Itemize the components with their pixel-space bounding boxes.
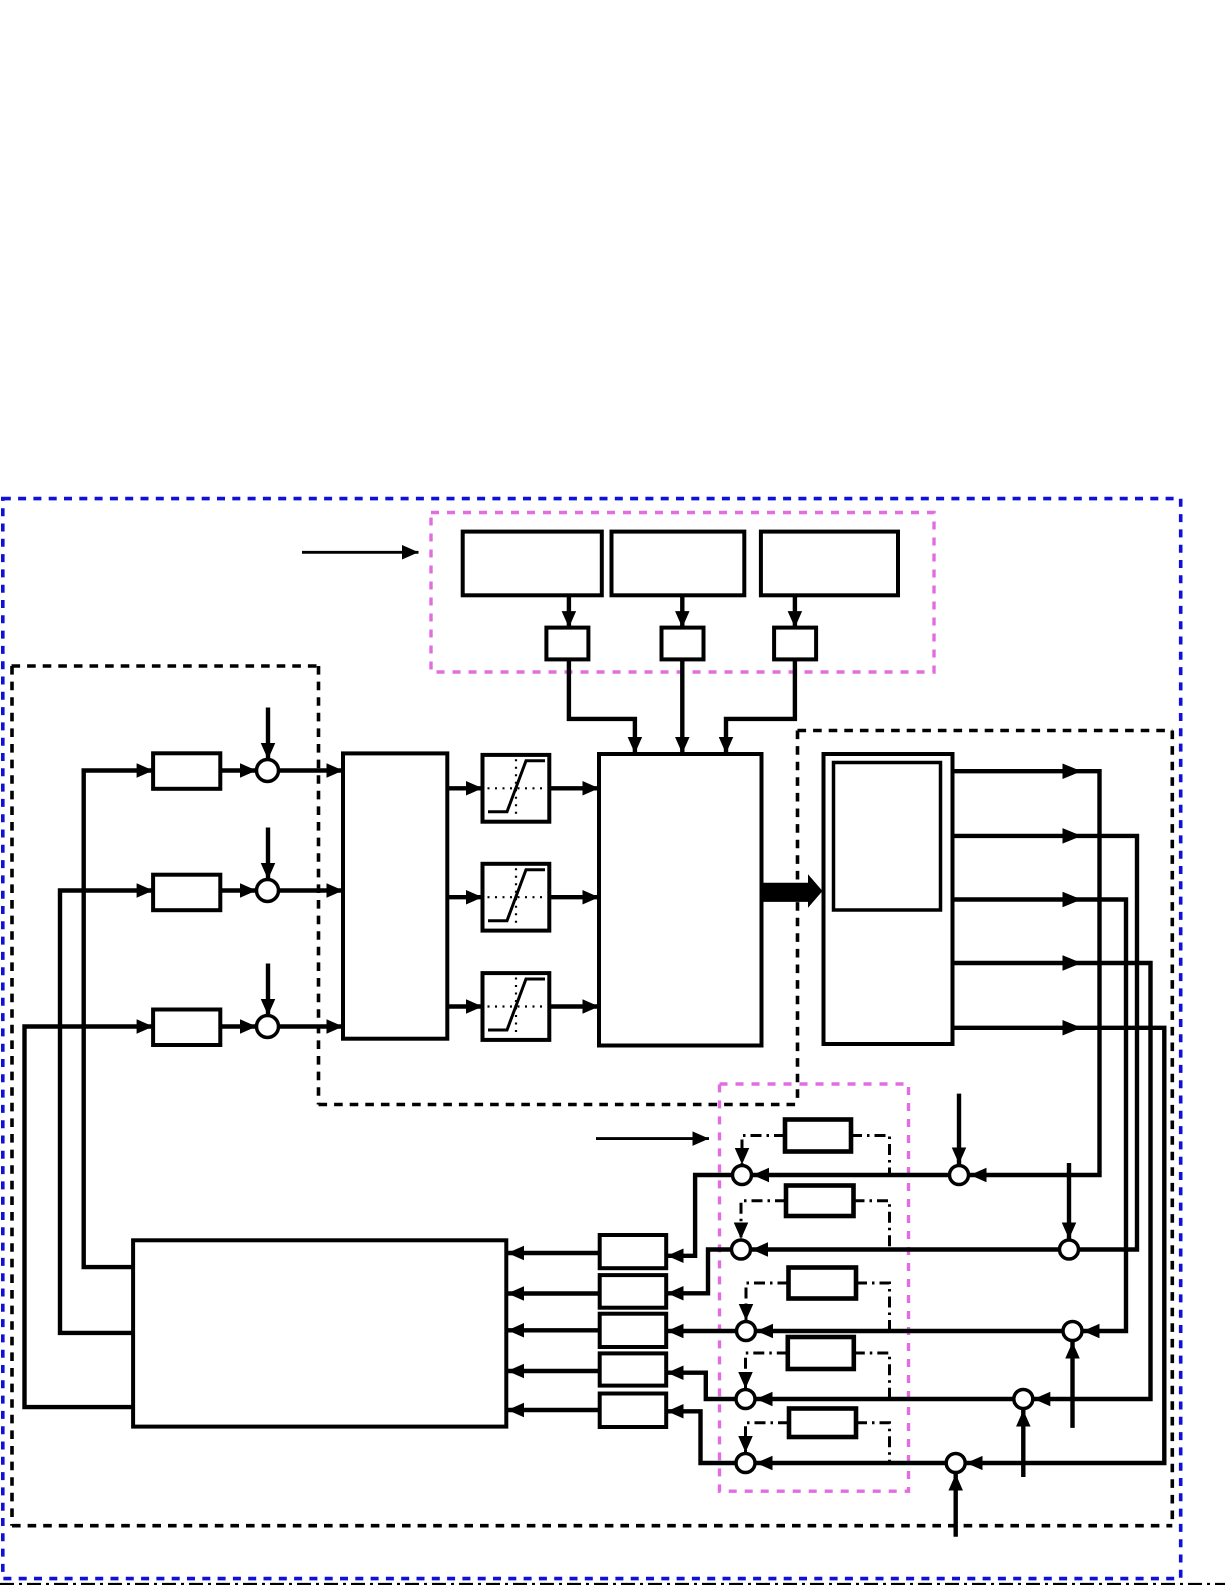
- filter block F2: [786, 1186, 854, 1217]
- external input arrow into junction J1 (top): [957, 1094, 961, 1164]
- dash-dot wire tap into filter F2 input: [854, 1201, 890, 1250]
- plant output wire y3 down to feedback junction row 3: [953, 900, 1127, 1332]
- arrow parameter P2 to gain block G2: [680, 595, 684, 627]
- controller block C: [599, 754, 762, 1046]
- wire summing junction S1 to mixer: [279, 768, 344, 772]
- wire mixer to saturation block SAT2: [447, 895, 482, 899]
- filter block F1: [785, 1120, 851, 1152]
- reference input arrow into summing junction S2: [266, 828, 270, 880]
- saturation icon curve SAT2: [488, 870, 545, 921]
- filter summing junction K5: [736, 1454, 755, 1473]
- direction arrowhead on output wire y1: [1063, 763, 1082, 779]
- summing junction J2: [1060, 1240, 1079, 1259]
- dashed boundary segment: top edge of right dashed box: [798, 729, 1173, 733]
- wire junction J2 to filter junction K2: [752, 1247, 1060, 1251]
- wire mixer to saturation block SAT1: [447, 786, 482, 790]
- wire junction J1 to filter junction K1: [753, 1173, 950, 1177]
- summing junction J4: [1014, 1390, 1033, 1409]
- wire SAT1 to controller: [549, 786, 599, 790]
- filter block F5: [789, 1409, 856, 1438]
- wire junction K4 to delay block Z4: [667, 1373, 735, 1399]
- wire gain G3 to controller top: [726, 659, 795, 753]
- delay block Z3: [600, 1314, 667, 1347]
- dash-dot wire filter F2 output into junction K2: [741, 1201, 786, 1239]
- dash-dot wire filter F4 output into junction K4: [746, 1353, 788, 1389]
- wire junction K3 to delay block Z3: [667, 1329, 736, 1333]
- reference input arrow into summing junction S1: [266, 708, 270, 760]
- filter summing junction K2: [732, 1240, 751, 1259]
- arrow parameter P3 to gain block G3: [793, 595, 797, 627]
- wire delay block Z2 to estimator: [508, 1291, 600, 1295]
- annotation arrow to pink group 1: [302, 551, 419, 554]
- dashed boundary segment: middle horizontal shelf: [319, 1103, 798, 1107]
- wire delay block Z4 to estimator: [508, 1369, 600, 1373]
- plant inner block: [834, 763, 941, 911]
- saturation icon curve SAT3: [488, 979, 545, 1030]
- external input arrow into junction J4 (bottom): [1021, 1410, 1025, 1477]
- summing junction S2: [257, 880, 279, 902]
- reference input arrow into summing junction S3: [266, 964, 270, 1016]
- direction arrowhead on output wire y3: [1063, 892, 1082, 908]
- dash-dot wire filter F5 output into junction K5: [746, 1423, 790, 1453]
- outer blue dashed system boundary: [3, 499, 1181, 1579]
- gain block G1: [546, 628, 588, 660]
- annotation arrow to pink group 2: [596, 1137, 709, 1140]
- wire junction K2 to delay block Z2: [667, 1250, 731, 1294]
- wire junction J3 to filter junction K3: [757, 1329, 1063, 1333]
- delay block Z1: [600, 1235, 667, 1268]
- filter summing junction K4: [736, 1390, 755, 1409]
- wire R3 to summing junction S3: [220, 1024, 256, 1028]
- delay block Z2: [600, 1275, 667, 1308]
- plant output wire y2 down to feedback junction row 2: [953, 836, 1138, 1250]
- wire R2 to summing junction S2: [220, 888, 256, 892]
- summing junction J5: [946, 1454, 965, 1473]
- saturation icon axes SAT2: [488, 868, 545, 926]
- estimator block E: [133, 1240, 506, 1426]
- filter block F3: [789, 1268, 857, 1299]
- wire R1 to summing junction S1: [220, 768, 256, 772]
- wire summing junction S3 to mixer: [279, 1024, 344, 1028]
- wire delay block Z1 to estimator: [508, 1251, 600, 1255]
- filter block F4: [788, 1337, 854, 1369]
- feedback wire 2 from estimator to input block R2: [60, 891, 153, 1333]
- feedback wire 1 from estimator to input block R1: [84, 771, 153, 1268]
- dash-dot wire tap into filter F3 input: [856, 1283, 890, 1331]
- parameter block P1: [463, 532, 602, 596]
- summing junction S3: [257, 1016, 279, 1038]
- wire mixer to saturation block SAT3: [447, 1004, 482, 1008]
- wire junction K1 to delay block Z1: [667, 1175, 732, 1256]
- gain block G3: [774, 628, 816, 660]
- dashed boundary segment: left edge: [10, 666, 14, 1526]
- delay block Z4: [600, 1353, 667, 1385]
- dashed boundary segment: bottom edge: [12, 1524, 1172, 1528]
- external input arrow into junction J5 (bottom): [954, 1474, 958, 1537]
- dash-dot wire filter F3 output into junction K3: [746, 1283, 789, 1321]
- dash-dot wire tap into filter F4 input: [854, 1353, 890, 1399]
- input block R3: [153, 1010, 220, 1046]
- external input arrow into junction J3 (bottom): [1070, 1342, 1074, 1428]
- bottom page dash-dot rule: [0, 1583, 1225, 1586]
- wire summing junction S2 to mixer: [279, 888, 344, 892]
- wire junction J5 to filter junction K5: [756, 1461, 946, 1465]
- direction arrowhead on output wire y2: [1063, 828, 1082, 844]
- arrow parameter P1 to gain block G1: [567, 595, 571, 627]
- saturation icon axes SAT1: [488, 759, 545, 817]
- feedback wire 3 from estimator to input block R3: [25, 1027, 154, 1408]
- plant output wire y4 down to feedback junction row 4: [953, 963, 1151, 1399]
- plant output wire y1 down to feedback junction row 1: [953, 771, 1100, 1175]
- dashed boundary segment: left edge of right dashed box: [796, 731, 800, 1105]
- saturation icon curve SAT1: [488, 761, 545, 812]
- pink dashed group box 1 (top parameter group): [431, 513, 934, 673]
- wire delay block Z5 to estimator: [508, 1408, 600, 1412]
- direction arrowhead on output wire y5: [1063, 1020, 1082, 1036]
- direction arrowhead on output wire y4: [1063, 955, 1082, 971]
- summing junction S1: [257, 760, 279, 782]
- delay block Z5: [600, 1394, 667, 1428]
- saturation block SAT1: [483, 755, 550, 822]
- dash-dot wire filter F1 output into junction K1: [742, 1136, 785, 1165]
- dashed boundary segment: top edge of left dashed box: [12, 664, 319, 668]
- summing junction J3: [1063, 1322, 1082, 1341]
- parameter block P2: [612, 532, 745, 596]
- tap wire into junction J2 (from J1 input wire): [1067, 1163, 1071, 1239]
- pink dashed group box 2 (feedback filter group): [720, 1084, 909, 1491]
- wire delay block Z3 to estimator: [508, 1328, 600, 1332]
- mixer block M: [343, 753, 447, 1038]
- wire junction K5 to delay block Z5: [667, 1411, 735, 1463]
- input block R2: [153, 875, 220, 911]
- gain block G2: [662, 628, 704, 660]
- dashed boundary segment: right edge: [1171, 731, 1175, 1526]
- saturation block SAT2: [483, 864, 550, 931]
- summing junction J1: [950, 1166, 969, 1185]
- dashed boundary segment: right edge of left dashed box: [317, 666, 321, 1105]
- parameter block P3: [761, 532, 898, 596]
- thick block arrow controller to plant: [762, 874, 823, 908]
- dash-dot wire tap into filter F1 input: [851, 1136, 890, 1176]
- wire gain G2 to controller top: [680, 659, 684, 753]
- wire SAT3 to controller: [549, 1004, 599, 1008]
- wire gain G1 to controller top: [569, 659, 635, 753]
- saturation block SAT3: [483, 973, 550, 1040]
- dash-dot wire tap into filter F5 input: [856, 1423, 890, 1463]
- wire junction J4 to filter junction K4: [756, 1397, 1013, 1401]
- saturation icon axes SAT3: [488, 978, 545, 1036]
- plant output wire y5 down to feedback junction row 5: [953, 1028, 1165, 1463]
- filter summing junction K3: [737, 1322, 756, 1341]
- filter summing junction K1: [733, 1166, 752, 1185]
- wire SAT2 to controller: [549, 895, 599, 899]
- plant outer block: [824, 754, 953, 1044]
- input block R1: [153, 753, 220, 789]
